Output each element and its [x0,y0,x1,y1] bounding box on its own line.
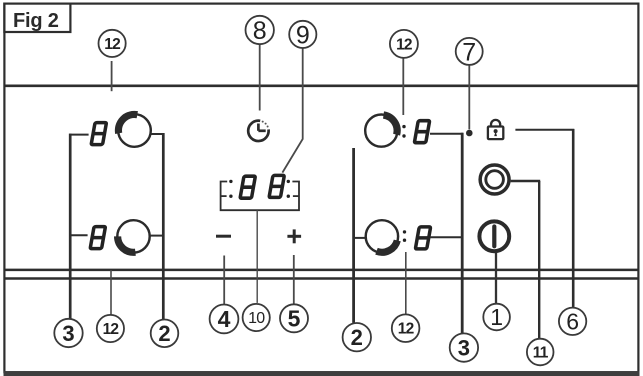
pointer line from callout 12 top-left [111,61,113,91]
svg-text:4: 4 [218,306,231,332]
pointer line to callout 5 [293,255,295,304]
pointer line to callout 12 bottom-right [405,252,407,314]
svg-text:3: 3 [458,335,470,360]
svg-text:12: 12 [103,321,119,338]
pointer line from callout 7 [468,65,470,129]
pointer line to callout 4 [223,256,225,305]
minus button [216,235,231,238]
pointer line to callout 11 [538,181,540,339]
callout 12 bottom-right [392,314,420,342]
left power display bottom (digit 8) [89,227,106,249]
right bottom colon [403,230,406,242]
left top knob indicator [118,114,151,147]
tick left-bottom-left [69,234,87,236]
callout 2 right [343,323,371,351]
svg-text:Fig 2: Fig 2 [13,10,59,32]
svg-text:3: 3 [62,321,74,346]
plus button [287,229,301,243]
svg-text:12: 12 [104,36,120,53]
callout 5 [280,304,308,332]
pointer line from callout 12 top-right [402,58,404,115]
svg-text:2: 2 [158,321,170,346]
Fig 2 label box [4,4,70,32]
right top knob indicator [365,115,397,147]
callout 12 top-right [390,30,418,58]
right top digit 8 [413,121,430,143]
tick left-bottom-right [150,235,165,237]
svg-text:10: 10 [248,310,265,327]
right bottom digit 8 [414,227,431,249]
callout 9 [289,21,316,49]
link line bottom-right 8 to bracket [430,236,462,238]
callout 8 [246,16,274,45]
callout 7 [456,38,483,66]
lock link line [515,129,574,131]
glass edge double line upper [5,269,639,272]
callout 11 [527,339,554,366]
timer display colons [229,180,290,198]
LED dot (7) [466,130,473,137]
pointer line to callout 2 left [162,133,165,320]
svg-text:12: 12 [396,36,412,53]
timer clock icon [248,121,268,141]
pointer line to callout 2 right [352,148,355,323]
left bottom knob indicator [117,220,149,252]
bottom thick bar [4,371,640,376]
timer digit 8 (tens) [239,176,256,198]
svg-text:1: 1 [490,304,503,330]
key lock icon [488,120,503,139]
callout 6 [559,308,586,335]
callout 12 top-left [99,30,126,57]
svg-text:8: 8 [253,17,267,45]
callout 4 [210,305,239,334]
pointer line to callout 3 right [461,133,464,334]
svg-text:6: 6 [566,309,579,335]
tick left-top-right [151,133,165,135]
link line top-right 8 to bracket [430,133,463,135]
svg-text:7: 7 [462,38,476,66]
pointer line from callout 8 [259,44,261,110]
pointer line to callout 12 bottom-left [110,270,112,315]
right top colon [402,125,405,138]
power on/off button [479,221,509,251]
booster/ring button [480,165,509,194]
glass edge double line lower [5,277,639,280]
pointer line from callout 9 [282,48,302,173]
right bottom knob indicator [366,220,398,252]
panel top edge line [4,85,640,88]
callout 3 left [54,319,82,347]
callout 2 left [151,320,179,348]
callout 3 right [450,333,478,361]
timer display bezel [221,182,299,211]
callout 12 bottom-left [97,315,124,342]
ring link line [511,180,541,182]
svg-text:11: 11 [533,345,549,362]
timer digit 8 (units) [268,175,285,197]
pointer line to callout 6 [572,129,575,308]
pointer line to callout 3 left [69,134,72,320]
pointer line to callout 10 [256,210,258,303]
svg-text:12: 12 [398,321,414,338]
pointer line to callout 1 [495,253,497,304]
tick right-bottom knob [355,237,366,239]
svg-text:5: 5 [288,306,301,332]
svg-text:9: 9 [296,21,310,49]
left power display top (digit 8) [90,123,107,145]
tick left-top-left [69,134,88,136]
svg-text:2: 2 [351,325,363,350]
callout 1 [483,304,510,331]
callout 10 [243,304,270,331]
